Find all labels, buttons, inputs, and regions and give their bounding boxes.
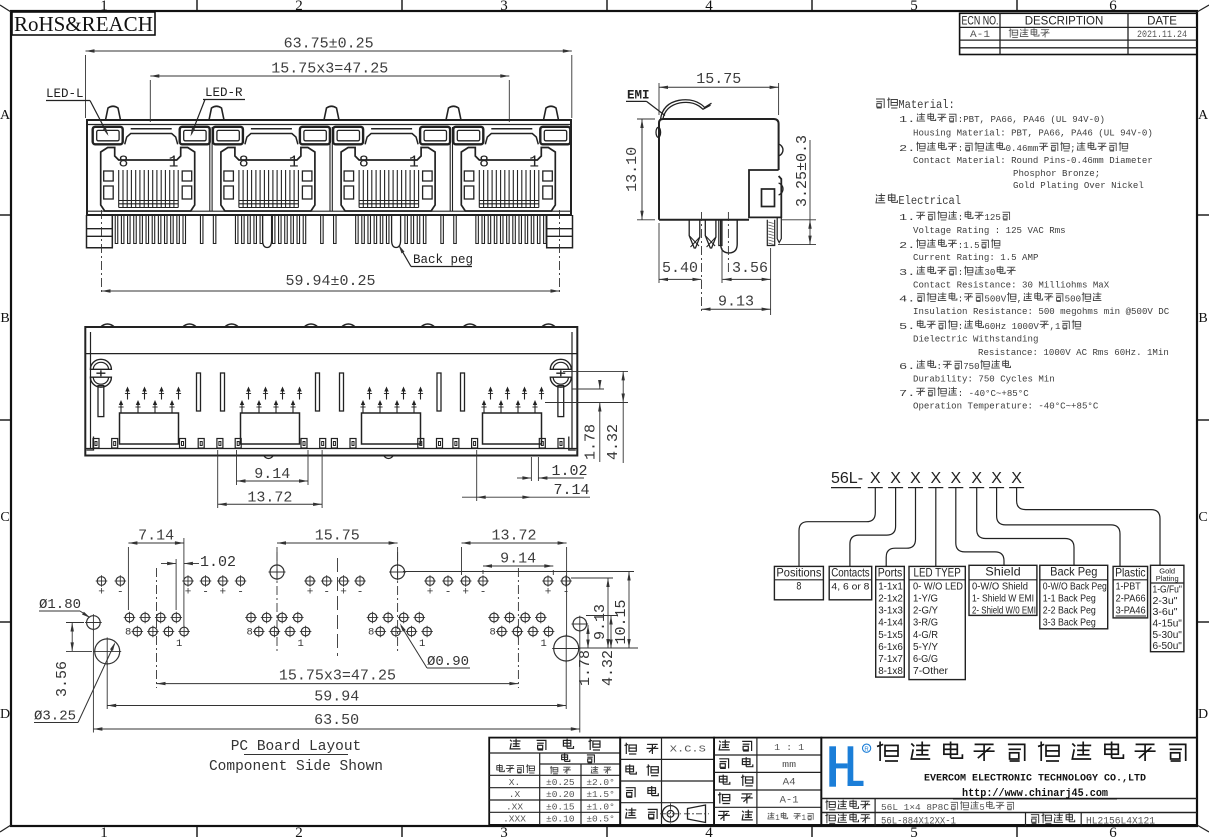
svg-text:X: X bbox=[1011, 470, 1022, 487]
svg-text:5.40: 5.40 bbox=[662, 260, 698, 277]
side view EMI spring wire bbox=[661, 100, 712, 120]
svg-text:5: 5 bbox=[980, 802, 985, 813]
dimension 5.40 bbox=[658, 223, 660, 283]
bottom view outline bbox=[85, 327, 577, 456]
svg-text:1: 1 bbox=[169, 153, 179, 172]
pcb dim 13.72 bbox=[461, 547, 463, 575]
side view shield tail bbox=[777, 217, 781, 242]
svg-text:4-1x4: 4-1x4 bbox=[878, 617, 903, 629]
bottom view screw feature left bbox=[90, 359, 111, 369]
side view contact pin bbox=[719, 220, 722, 246]
svg-text:1: 1 bbox=[541, 638, 547, 650]
svg-text:Dielectric Withstanding: Dielectric Withstanding bbox=[913, 334, 1038, 345]
svg-text:1.78: 1.78 bbox=[583, 424, 600, 460]
tree box Gold Plating bbox=[1151, 565, 1184, 651]
svg-text:1: 1 bbox=[802, 814, 807, 823]
svg-text:2.: 2. bbox=[899, 143, 915, 154]
dimension 3.25±0.3 side bbox=[782, 219, 816, 221]
svg-text:A-1: A-1 bbox=[970, 30, 990, 41]
svg-text:Component Side Shown: Component Side Shown bbox=[209, 759, 383, 775]
back peg front view left bbox=[263, 215, 272, 248]
svg-text:1: 1 bbox=[775, 814, 780, 823]
zone ticks bottom bbox=[196, 826, 198, 837]
RJ45 port 1 face bbox=[93, 127, 123, 145]
svg-text:7.: 7. bbox=[899, 388, 915, 399]
svg-text:X.: X. bbox=[509, 777, 520, 788]
svg-text:5-30u": 5-30u" bbox=[1153, 630, 1183, 641]
svg-text:Plastic: Plastic bbox=[1115, 566, 1146, 580]
svg-text:±1.0°: ±1.0° bbox=[586, 801, 615, 812]
pcb dim 1.02 bbox=[175, 559, 177, 610]
svg-text:Electrical: Electrical bbox=[898, 195, 961, 208]
side view latch block bbox=[749, 170, 781, 217]
svg-text:-: - bbox=[563, 587, 570, 599]
svg-text:5: 5 bbox=[910, 0, 918, 14]
svg-text:-: - bbox=[323, 587, 330, 599]
svg-text:9.14: 9.14 bbox=[254, 466, 290, 483]
svg-text:3-1x3: 3-1x3 bbox=[878, 605, 903, 617]
svg-text:2: 2 bbox=[295, 825, 303, 837]
title block sign table bbox=[620, 738, 714, 825]
svg-text:X: X bbox=[991, 470, 1002, 487]
svg-text:1-Y/G: 1-Y/G bbox=[913, 593, 938, 605]
svg-text:RoHS&REACH: RoHS&REACH bbox=[14, 12, 153, 36]
pcb dim 3.56 vertical bbox=[66, 622, 84, 624]
svg-text:+: + bbox=[427, 587, 434, 599]
svg-text:15.75x3=47.25: 15.75x3=47.25 bbox=[271, 61, 388, 78]
svg-text:D: D bbox=[1198, 707, 1208, 722]
svg-text::: : bbox=[958, 294, 964, 305]
svg-text:+: + bbox=[462, 587, 469, 599]
svg-text:56L-: 56L- bbox=[831, 470, 863, 487]
big holes 3.25 bbox=[95, 639, 120, 664]
pcb dim 7.14 bbox=[127, 547, 129, 610]
svg-text:3-PA46: 3-PA46 bbox=[1116, 605, 1146, 617]
svg-text:LED-L: LED-L bbox=[46, 87, 84, 101]
svg-text:3.25±0.3: 3.25±0.3 bbox=[794, 135, 811, 207]
zone ticks left bbox=[0, 214, 11, 216]
svg-text:7-1x7: 7-1x7 bbox=[878, 653, 903, 665]
svg-text:-: - bbox=[357, 587, 364, 599]
svg-text::PBT, PA66, PA46 (UL 94V-0): :PBT, PA66, PA46 (UL 94V-0) bbox=[958, 114, 1105, 125]
side view pin 1 bbox=[689, 220, 700, 248]
svg-text:+: + bbox=[307, 587, 314, 599]
svg-text:3-6u": 3-6u" bbox=[1153, 607, 1178, 618]
svg-text:±0.15: ±0.15 bbox=[546, 801, 575, 812]
svg-text:C: C bbox=[1198, 510, 1207, 525]
side view body bbox=[659, 119, 779, 220]
svg-text:9.14: 9.14 bbox=[500, 551, 536, 568]
svg-text:±1.5°: ±1.5° bbox=[586, 789, 615, 800]
svg-text:4.: 4. bbox=[899, 294, 915, 305]
svg-text::: : bbox=[958, 321, 964, 332]
product rows bbox=[825, 800, 835, 810]
side view pin 2 bbox=[705, 220, 716, 248]
svg-text:6-G/G: 6-G/G bbox=[913, 653, 938, 665]
svg-text:2-1x2: 2-1x2 bbox=[878, 593, 903, 605]
svg-text:-: - bbox=[480, 587, 487, 599]
svg-text:1: 1 bbox=[176, 638, 182, 650]
svg-text:3: 3 bbox=[500, 0, 508, 14]
svg-text:8: 8 bbox=[239, 153, 249, 172]
svg-text:R: R bbox=[864, 747, 869, 753]
dimension 13.10 bbox=[637, 118, 655, 120]
front view shield top bumps bbox=[106, 106, 121, 120]
svg-text:8: 8 bbox=[490, 627, 496, 639]
svg-text:59.94±0.25: 59.94±0.25 bbox=[285, 273, 375, 290]
right mounting bracket bbox=[547, 215, 573, 248]
svg-text:Durability: 750 Cycles Min: Durability: 750 Cycles Min bbox=[913, 374, 1055, 385]
third angle projection symbol bbox=[662, 806, 678, 822]
bottom view top edge bumps bbox=[101, 324, 115, 327]
svg-text:3-R/G: 3-R/G bbox=[913, 617, 938, 629]
svg-text:8: 8 bbox=[368, 627, 374, 639]
svg-text:X: X bbox=[870, 470, 881, 487]
svg-text:4: 4 bbox=[705, 0, 713, 14]
svg-text:,: , bbox=[1017, 294, 1023, 305]
side view back peg bbox=[721, 220, 738, 253]
svg-text:1: 1 bbox=[529, 153, 539, 172]
svg-text:3.56: 3.56 bbox=[54, 661, 71, 697]
svg-text:9.13: 9.13 bbox=[718, 294, 754, 311]
svg-text:1- Shield W EMI: 1- Shield W EMI bbox=[972, 594, 1034, 605]
svg-text:D: D bbox=[0, 707, 10, 722]
svg-text:8: 8 bbox=[359, 153, 369, 172]
bottom view back peg bumps bbox=[264, 456, 274, 459]
pcb dim 9.13 vertical bbox=[571, 577, 613, 579]
svg-text:2-3u": 2-3u" bbox=[1153, 596, 1178, 607]
svg-text:+: + bbox=[185, 587, 192, 599]
svg-text:EVERCOM ELECTRONIC TECHNOLOGY: EVERCOM ELECTRONIC TECHNOLOGY CO.,LTD bbox=[924, 774, 1146, 785]
svg-text:;: ; bbox=[1070, 143, 1076, 154]
svg-text:3.56: 3.56 bbox=[732, 260, 768, 277]
svg-text:2-2 Back Peg: 2-2 Back Peg bbox=[1043, 606, 1096, 617]
svg-text:1-1 Back Peg: 1-1 Back Peg bbox=[1043, 594, 1096, 605]
svg-text:2.: 2. bbox=[899, 240, 915, 251]
svg-text:: -40°C~+85°C: : -40°C~+85°C bbox=[958, 388, 1029, 399]
company name CJK (stylized strokes) bbox=[877, 742, 898, 762]
RJ45 port 2 face bbox=[213, 127, 243, 145]
svg-text:±0.25: ±0.25 bbox=[546, 777, 575, 788]
svg-text:A-1: A-1 bbox=[780, 795, 799, 806]
svg-text:Back Peg: Back Peg bbox=[1050, 565, 1097, 579]
svg-text:59.94: 59.94 bbox=[314, 689, 359, 706]
svg-text:PC Board Layout: PC Board Layout bbox=[231, 739, 362, 755]
svg-text:9.13: 9.13 bbox=[592, 604, 609, 640]
svg-text:4.32: 4.32 bbox=[600, 650, 617, 686]
svg-text:4: 4 bbox=[705, 825, 713, 837]
svg-text:8: 8 bbox=[119, 153, 129, 172]
svg-text:4-15u": 4-15u" bbox=[1153, 619, 1183, 630]
tree box Shield bbox=[969, 565, 1037, 615]
bottom view port contact blocks and pins bbox=[120, 413, 179, 444]
RJ45 port 3 face bbox=[333, 127, 363, 145]
svg-text:LED-R: LED-R bbox=[205, 86, 243, 100]
pcb dim 63.50 bbox=[92, 630, 94, 733]
svg-text:3-3 Back Peg: 3-3 Back Peg bbox=[1043, 618, 1096, 629]
svg-text:.XXX: .XXX bbox=[503, 814, 526, 825]
svg-text::: : bbox=[958, 212, 964, 223]
svg-text:DESCRIPTION: DESCRIPTION bbox=[1025, 16, 1104, 28]
svg-text:1.78: 1.78 bbox=[577, 650, 594, 686]
pcb dim 10.15 vertical bbox=[403, 571, 634, 573]
svg-text:1.02: 1.02 bbox=[200, 554, 236, 571]
RoHS&REACH label box bbox=[12, 12, 155, 35]
side holes 1.80 bbox=[87, 616, 101, 630]
svg-text:X: X bbox=[910, 470, 921, 487]
svg-text:Operation Temperature: -40°C~+: Operation Temperature: -40°C~+85°C bbox=[913, 401, 1099, 412]
svg-text:500V: 500V bbox=[984, 294, 1006, 305]
svg-text:1: 1 bbox=[100, 825, 108, 837]
svg-text:http://www.chinarj45.com: http://www.chinarj45.com bbox=[962, 788, 1108, 800]
front view bottom legs bbox=[115, 215, 118, 244]
svg-text:Gold Plating Over Nickel: Gold Plating Over Nickel bbox=[1013, 180, 1144, 191]
svg-text:2021.11.24: 2021.11.24 bbox=[1137, 29, 1187, 41]
svg-text:-: - bbox=[237, 587, 244, 599]
svg-text:1: 1 bbox=[289, 153, 299, 172]
svg-text:B: B bbox=[0, 311, 9, 326]
bracket centerlines bbox=[101, 210, 103, 294]
svg-text:A4: A4 bbox=[783, 778, 796, 789]
svg-text:8-1x8: 8-1x8 bbox=[878, 665, 903, 677]
svg-text:7.14: 7.14 bbox=[554, 482, 590, 499]
svg-text:Resistance: 1000V AC Rms 60Hz.: Resistance: 1000V AC Rms 60Hz. 1Min bbox=[978, 347, 1169, 358]
svg-text:2-G/Y: 2-G/Y bbox=[913, 605, 938, 617]
svg-text:8: 8 bbox=[247, 627, 253, 639]
svg-text:5-Y/Y: 5-Y/Y bbox=[913, 641, 938, 653]
zone ticks right bbox=[1197, 214, 1209, 216]
svg-text:8: 8 bbox=[479, 153, 489, 172]
svg-text:4.32: 4.32 bbox=[605, 424, 622, 460]
svg-text:HL2156L4X121: HL2156L4X121 bbox=[1086, 816, 1155, 827]
svg-text:30: 30 bbox=[984, 267, 995, 278]
svg-text:13.72: 13.72 bbox=[492, 528, 537, 545]
svg-text:Material:: Material: bbox=[898, 99, 954, 112]
dimension 15.75 side bbox=[658, 83, 660, 115]
svg-text:8: 8 bbox=[796, 580, 801, 592]
svg-text:DATE: DATE bbox=[1147, 16, 1177, 28]
dimension 3.56 side bbox=[721, 248, 723, 283]
tree box Positions bbox=[774, 566, 823, 599]
svg-text:Contacts: Contacts bbox=[831, 566, 870, 580]
tree connector lines bbox=[799, 488, 875, 567]
zone ticks top bbox=[196, 0, 198, 11]
svg-text::: : bbox=[958, 267, 964, 278]
svg-text:mm: mm bbox=[782, 759, 796, 770]
svg-text:63.75±0.25: 63.75±0.25 bbox=[284, 36, 374, 53]
svg-text:500: 500 bbox=[1065, 294, 1082, 305]
svg-text:125: 125 bbox=[984, 212, 1001, 223]
title block tolerance table bbox=[489, 738, 620, 825]
back peg holes bbox=[270, 565, 284, 579]
svg-text::1.5: :1.5 bbox=[958, 240, 980, 251]
svg-text:1: 1 bbox=[419, 638, 425, 650]
svg-text:60Hz 1000V: 60Hz 1000V bbox=[984, 321, 1039, 332]
svg-text:Shield: Shield bbox=[985, 565, 1020, 579]
svg-text:750: 750 bbox=[963, 361, 980, 372]
svg-text:13.72: 13.72 bbox=[247, 490, 292, 507]
corner diagonal marks bbox=[0, 5, 11, 12]
svg-text:10.15: 10.15 bbox=[613, 599, 630, 644]
svg-text:+: + bbox=[98, 587, 105, 599]
bottom view feet bbox=[93, 439, 99, 449]
signal pad groups bbox=[125, 613, 134, 622]
HL logo bbox=[829, 746, 863, 786]
svg-text:1: 1 bbox=[298, 638, 304, 650]
svg-text:-: - bbox=[445, 587, 452, 599]
svg-text:1 : 1: 1 : 1 bbox=[774, 742, 804, 753]
svg-text:8: 8 bbox=[125, 627, 131, 639]
svg-text:-: - bbox=[117, 587, 124, 599]
side view centerlines bbox=[701, 212, 703, 313]
svg-text:6-1x6: 6-1x6 bbox=[878, 641, 903, 653]
svg-text:Ports: Ports bbox=[878, 566, 903, 580]
svg-text:X.C.S: X.C.S bbox=[670, 745, 706, 755]
svg-text:1-1x1: 1-1x1 bbox=[878, 580, 903, 592]
dimension 63.75±0.25 bbox=[85, 55, 87, 118]
pcb dim 59.94 bbox=[106, 664, 108, 709]
svg-text:56L 1×4 8P8C: 56L 1×4 8P8C bbox=[881, 802, 949, 813]
pcb dim 15.75 bbox=[276, 547, 278, 566]
title block company area bbox=[821, 738, 1197, 825]
pcb centerlines bbox=[156, 568, 158, 688]
svg-text:5.: 5. bbox=[899, 321, 915, 332]
svg-text:7.14: 7.14 bbox=[138, 528, 174, 545]
svg-text:Insulation Resistance: 500 meg: Insulation Resistance: 500 megohms min @… bbox=[913, 306, 1169, 317]
svg-text:0-W/O Back Peg: 0-W/O Back Peg bbox=[1043, 581, 1107, 592]
title block scale table bbox=[714, 738, 821, 825]
bottom view dimension 7.14 bbox=[476, 450, 478, 501]
svg-text:2- Shield W/0 EMI: 2- Shield W/0 EMI bbox=[972, 606, 1036, 617]
led pad row bbox=[97, 577, 106, 586]
bottom view inner side walls bbox=[90, 332, 92, 449]
svg-text:1.: 1. bbox=[899, 212, 915, 223]
svg-text:13.10: 13.10 bbox=[624, 147, 641, 192]
pcb dim 15.75x3 bbox=[157, 683, 519, 685]
bottom view slots bbox=[197, 373, 201, 411]
svg-text:,1: ,1 bbox=[1050, 321, 1061, 332]
pcb dim 9.14 bbox=[482, 570, 484, 574]
tree box LED TYEP bbox=[909, 566, 965, 679]
svg-text:A: A bbox=[1198, 108, 1209, 123]
svg-text:3: 3 bbox=[500, 825, 508, 837]
svg-text:3.: 3. bbox=[899, 267, 915, 278]
svg-text:Plating: Plating bbox=[1156, 574, 1179, 583]
side view rear pin bbox=[767, 220, 774, 246]
svg-text:1: 1 bbox=[409, 153, 419, 172]
svg-text:X: X bbox=[890, 470, 901, 487]
side view right edge bumps bbox=[779, 144, 783, 156]
svg-text:56L-884X12XX-1: 56L-884X12XX-1 bbox=[881, 816, 956, 827]
svg-text::: : bbox=[937, 361, 943, 372]
svg-text:±0.20: ±0.20 bbox=[546, 789, 575, 800]
svg-text:1.02: 1.02 bbox=[552, 463, 588, 480]
material and electrical specification text bbox=[876, 99, 884, 108]
svg-text:+: + bbox=[219, 587, 226, 599]
svg-text:5-1x5: 5-1x5 bbox=[878, 629, 903, 641]
svg-text:ECN NO.: ECN NO. bbox=[962, 16, 999, 28]
svg-text:0-W/O Shield: 0-W/O Shield bbox=[972, 581, 1028, 592]
bottom view dimensions 1.78 / 4.32 right bbox=[563, 370, 628, 372]
svg-text:+: + bbox=[545, 587, 552, 599]
svg-text:Housing Material: PBT, PA66, P: Housing Material: PBT, PA66, PA46 (UL 94… bbox=[913, 128, 1153, 139]
svg-text:2-PA66: 2-PA66 bbox=[1116, 593, 1146, 605]
svg-text:Contact Material: Round Pins-0: Contact Material: Round Pins-0.46mm Diam… bbox=[913, 155, 1153, 166]
svg-text:1-G/Fu": 1-G/Fu" bbox=[1153, 585, 1183, 596]
svg-text:X: X bbox=[971, 470, 982, 487]
svg-text:B: B bbox=[1198, 311, 1207, 326]
svg-text:EMI: EMI bbox=[627, 89, 650, 103]
svg-text:15.75: 15.75 bbox=[315, 528, 360, 545]
port dividers bbox=[209, 127, 211, 211]
bottom view dimension 13.72 bbox=[217, 450, 219, 508]
ECN revision table bbox=[960, 13, 1197, 54]
svg-text:LED TYEP: LED TYEP bbox=[914, 566, 961, 580]
svg-text:±2.0°: ±2.0° bbox=[586, 777, 615, 788]
svg-text:4, 6 or 8: 4, 6 or 8 bbox=[831, 581, 869, 592]
dimension 15.75x3=47.25 bbox=[149, 80, 151, 122]
tree box Contacts bbox=[829, 566, 872, 599]
svg-text:63.50: 63.50 bbox=[314, 712, 359, 729]
bottom view corner brackets bbox=[87, 437, 94, 451]
svg-text:6.: 6. bbox=[899, 361, 915, 372]
bottom view dimension 9.14 bbox=[236, 450, 238, 485]
svg-text:+: + bbox=[340, 587, 347, 599]
svg-text:X: X bbox=[930, 470, 941, 487]
svg-text:15.75: 15.75 bbox=[696, 71, 741, 88]
svg-text:2: 2 bbox=[295, 0, 303, 14]
svg-text:Positions: Positions bbox=[776, 566, 821, 580]
svg-text:±0.10: ±0.10 bbox=[546, 814, 575, 825]
svg-text:C: C bbox=[0, 510, 9, 525]
svg-text:Phosphor Bronze;: Phosphor Bronze; bbox=[1013, 168, 1100, 179]
svg-text:Current Rating: 1.5 AMP: Current Rating: 1.5 AMP bbox=[913, 252, 1039, 263]
svg-text:15.75x3=47.25: 15.75x3=47.25 bbox=[279, 668, 396, 685]
svg-text:6: 6 bbox=[1109, 0, 1117, 14]
dimension 9.13 side bbox=[702, 308, 771, 310]
svg-text:.XX: .XX bbox=[506, 801, 523, 812]
svg-text:±0.5°: ±0.5° bbox=[586, 814, 615, 825]
svg-text:1-PBT: 1-PBT bbox=[1116, 580, 1141, 592]
tree box Back Peg bbox=[1040, 565, 1108, 629]
RJ45 port 4 face bbox=[453, 127, 483, 145]
pcb dim 4.32 vertical bbox=[610, 616, 612, 649]
svg-text:0- W/O LED: 0- W/O LED bbox=[913, 580, 963, 592]
svg-text:1.: 1. bbox=[899, 114, 915, 125]
left mounting bracket bbox=[87, 215, 113, 248]
svg-text:6-50u": 6-50u" bbox=[1153, 641, 1183, 652]
pcb dim 1.78 vertical bbox=[587, 625, 589, 649]
svg-text:7-Other: 7-Other bbox=[913, 665, 948, 677]
svg-text:0.46mm: 0.46mm bbox=[1006, 143, 1039, 154]
svg-text:4-G/R: 4-G/R bbox=[913, 629, 938, 641]
svg-text:.X: .X bbox=[509, 789, 521, 800]
tree box Plastic bbox=[1113, 566, 1148, 618]
dimension 59.94±0.25 bbox=[102, 290, 560, 292]
back peg front view right bbox=[392, 215, 401, 248]
bottom view screw feature right bbox=[550, 359, 571, 369]
svg-text:A: A bbox=[0, 108, 11, 123]
bottom view dimension 1.02 bbox=[530, 457, 532, 481]
svg-text:X: X bbox=[950, 470, 961, 487]
front view: 4-port RJ45 connector, face bbox=[87, 120, 571, 215]
svg-text:Contact Resistance: 30 Millioh: Contact Resistance: 30 Milliohms MaX bbox=[913, 280, 1109, 291]
svg-text:Back peg: Back peg bbox=[413, 253, 473, 267]
tree box Ports bbox=[876, 566, 905, 677]
svg-text:Voltage Rating : 125 VAC Rms: Voltage Rating : 125 VAC Rms bbox=[913, 225, 1066, 236]
svg-text::: : bbox=[958, 143, 964, 154]
svg-text:-: - bbox=[202, 587, 209, 599]
